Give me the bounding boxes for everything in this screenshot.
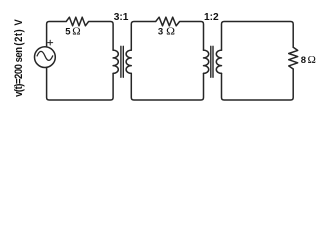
plus polarity mark bbox=[48, 40, 53, 45]
wire mesh1 top with resistor R1 zigzag 5 ohm bbox=[47, 17, 114, 50]
transformer T2 core bbox=[211, 46, 213, 77]
svg-text:5: 5 bbox=[65, 26, 71, 37]
svg-text:1:2: 1:2 bbox=[204, 12, 219, 23]
svg-text:Ω: Ω bbox=[166, 26, 175, 38]
transformer T1 primary winding bbox=[113, 50, 118, 73]
svg-text:Ω: Ω bbox=[308, 54, 316, 66]
svg-text:(2t) V: (2t) V bbox=[13, 19, 25, 45]
svg-text:8: 8 bbox=[301, 55, 306, 66]
source V1 circle bbox=[35, 47, 56, 68]
wire mesh3 top bbox=[222, 22, 294, 51]
transformer T2 secondary winding bbox=[216, 50, 221, 73]
wire mesh2 bottom bbox=[131, 73, 203, 100]
transformer T2 primary winding bbox=[204, 50, 209, 73]
transformer T1 secondary winding bbox=[126, 50, 131, 73]
svg-text:3: 3 bbox=[158, 27, 163, 38]
transformer T1 core bbox=[121, 46, 123, 77]
wire mesh2 top with resistor R2 zigzag 3 ohm bbox=[131, 17, 203, 50]
source V1 sine bbox=[37, 51, 53, 60]
svg-text:v(t)=200 sen: v(t)=200 sen bbox=[13, 47, 25, 97]
wire mesh1 bottom bbox=[47, 67, 114, 100]
svg-text:Ω: Ω bbox=[72, 25, 80, 37]
svg-text:3:1: 3:1 bbox=[114, 12, 129, 23]
resistor R3 zigzag 8 ohm vertical bbox=[289, 47, 298, 69]
wire mesh3 bottom bbox=[222, 69, 294, 100]
